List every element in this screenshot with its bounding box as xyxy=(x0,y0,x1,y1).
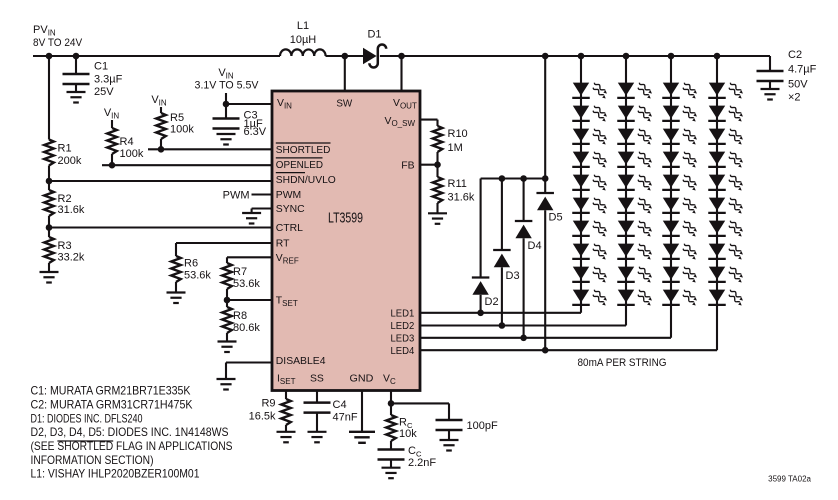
svg-text:LED3: LED3 xyxy=(391,334,415,345)
capacitor C1 xyxy=(63,56,123,98)
svg-text:CTRL: CTRL xyxy=(276,223,303,234)
IC pin labels xyxy=(276,98,417,386)
diode D2 xyxy=(472,179,499,313)
capacitor 100pF xyxy=(436,420,498,440)
svg-text:4.7µF: 4.7µF xyxy=(788,64,817,76)
wire SW pin to rail xyxy=(344,56,346,91)
node bus/D4 xyxy=(520,175,527,182)
wire LED1 xyxy=(420,312,581,314)
resistor R2 xyxy=(44,181,85,228)
capacitor C4 on SS xyxy=(304,391,358,432)
resistor RC xyxy=(386,403,417,449)
resistor R10 xyxy=(433,126,468,165)
diode D1 (Schottky) xyxy=(363,28,386,67)
resistor R7 xyxy=(222,263,260,300)
capacitor CC xyxy=(378,445,437,469)
wire SYNC to ground xyxy=(252,209,272,214)
wire PVIN input rail xyxy=(33,55,280,57)
svg-text:47nF: 47nF xyxy=(333,412,358,424)
svg-text:R4: R4 xyxy=(120,136,134,148)
svg-text:100pF: 100pF xyxy=(467,420,498,432)
svg-text:R8: R8 xyxy=(233,310,247,322)
svg-text:D2: D2 xyxy=(485,296,499,308)
ground under 100pF xyxy=(440,440,459,451)
svg-text:LED1: LED1 xyxy=(391,309,415,320)
node R5/SHORTLED junction xyxy=(158,146,165,153)
svg-text:PWM: PWM xyxy=(223,190,250,202)
svg-text:D5: D5 xyxy=(549,212,563,224)
svg-text:8V TO 24V: 8V TO 24V xyxy=(33,37,83,49)
svg-text:D3: D3 xyxy=(506,270,520,282)
wire VO_SW to R10 xyxy=(420,120,438,126)
ground under C1 xyxy=(67,92,86,103)
node C3 junction xyxy=(223,101,230,108)
svg-text:100k: 100k xyxy=(170,124,194,136)
ground under C2 xyxy=(761,89,780,100)
svg-text:10µH: 10µH xyxy=(290,34,317,46)
wire SHORTLED xyxy=(148,148,272,150)
svg-text:DISABLE4: DISABLE4 xyxy=(276,356,326,367)
ground at SYNC xyxy=(242,213,261,224)
svg-text:80mA PER STRING: 80mA PER STRING xyxy=(578,357,667,369)
resistor R4 xyxy=(107,120,144,165)
node R2/R3 CTRL junction xyxy=(46,224,53,231)
svg-text:3.3µF: 3.3µF xyxy=(94,73,123,85)
diode D3 xyxy=(493,179,519,326)
wire VOUT to diode bus xyxy=(544,56,546,193)
svg-text:31.6k: 31.6k xyxy=(58,204,85,216)
svg-text:GND: GND xyxy=(350,374,374,385)
svg-text:D1: D1 xyxy=(367,28,381,40)
resistor R8 xyxy=(222,300,260,341)
svg-text:RT: RT xyxy=(276,239,290,250)
node PVIN label xyxy=(33,24,83,49)
svg-text:R1: R1 xyxy=(58,143,72,155)
wire OPENLED xyxy=(102,164,272,166)
LED string 3 (10 LEDs) xyxy=(662,53,697,338)
svg-text:3.1V TO 5.5V: 3.1V TO 5.5V xyxy=(195,80,260,92)
capacitor C3 xyxy=(213,104,267,138)
svg-text:OPENLED: OPENLED xyxy=(276,160,323,171)
resistor R1 xyxy=(44,56,82,181)
svg-text:SYNC: SYNC xyxy=(276,204,305,215)
ground under C4 xyxy=(308,432,327,443)
wire CTRL xyxy=(49,226,272,228)
node bus/D5 xyxy=(542,175,549,182)
svg-text:R9: R9 xyxy=(261,398,275,410)
ground under CC xyxy=(382,468,401,479)
ground under R9 xyxy=(277,432,296,443)
svg-text:LED4: LED4 xyxy=(391,346,415,357)
node VOUT junction xyxy=(398,53,405,60)
wire TSET xyxy=(227,299,272,301)
resistor R3 xyxy=(44,228,85,272)
ground under R3 xyxy=(40,272,59,283)
node VC junction xyxy=(388,400,395,407)
svg-text:C1: C1 xyxy=(94,61,108,73)
svg-text:53.6k: 53.6k xyxy=(184,270,211,282)
ground under R11 xyxy=(428,213,447,224)
svg-text:SS: SS xyxy=(310,374,324,385)
svg-text:2.2nF: 2.2nF xyxy=(408,457,436,469)
node rail/diode-bus junction xyxy=(542,53,549,60)
wire LED3 xyxy=(420,337,671,339)
wire diode anode bus xyxy=(481,177,546,179)
inductor L1 xyxy=(280,20,326,56)
diode D5 xyxy=(536,193,562,350)
LED string 1 (10 LEDs) xyxy=(572,53,607,313)
svg-text:LED2: LED2 xyxy=(391,321,415,332)
svg-text:R7: R7 xyxy=(233,266,247,278)
resistor R9 on ISET xyxy=(249,391,291,432)
node C1 junction xyxy=(73,53,80,60)
svg-text:INFORMATION SECTION): INFORMATION SECTION) xyxy=(31,453,154,467)
wire VREF xyxy=(227,257,272,263)
node D5/LED4 xyxy=(542,347,549,354)
ground at DISABLE4 xyxy=(217,379,236,390)
ground under R8 xyxy=(218,342,237,353)
wire LED2 xyxy=(420,324,626,326)
svg-text:LT3599: LT3599 xyxy=(328,210,363,226)
svg-text:C2: C2 xyxy=(788,49,802,61)
wire VIN pin xyxy=(226,93,272,104)
text figure number xyxy=(768,475,811,484)
svg-text:FB: FB xyxy=(401,161,414,172)
svg-text:6.3V: 6.3V xyxy=(244,126,267,138)
node R1/R2 SHDN junction xyxy=(46,178,53,185)
svg-text:200k: 200k xyxy=(58,155,82,167)
svg-text:100k: 100k xyxy=(120,148,144,160)
wire GND pin to ground xyxy=(361,391,363,432)
LED string 4 (10 LEDs) xyxy=(708,53,743,351)
node VIN label above R4 xyxy=(104,107,120,121)
svg-text:R11: R11 xyxy=(448,178,467,190)
text component notes xyxy=(31,384,233,481)
svg-text:L1: L1 xyxy=(297,20,309,32)
ground under R6 xyxy=(167,293,186,304)
node R4/OPENLED junction xyxy=(109,162,116,169)
svg-text:×2: ×2 xyxy=(788,92,801,104)
resistor R6 xyxy=(171,256,211,292)
wire VOUT rail xyxy=(380,55,770,57)
resistor R11 xyxy=(433,165,475,213)
svg-text:D4: D4 xyxy=(528,240,542,252)
ground at GND pin xyxy=(349,432,375,443)
svg-text:SHDN/UVLO: SHDN/UVLO xyxy=(276,175,336,186)
wire SHDN/UVLO xyxy=(49,180,272,182)
wire RT xyxy=(176,243,272,256)
node D3/LED2 xyxy=(499,322,506,329)
wire L1 to D1 xyxy=(326,55,364,57)
wire FB xyxy=(420,164,438,166)
node VIN 3.1V TO 5.5V label xyxy=(195,67,260,92)
node PVIN/R1 junction xyxy=(46,53,53,60)
svg-text:L1: VISHAY IHLP2020BZER100M01: L1: VISHAY IHLP2020BZER100M01 xyxy=(31,467,200,481)
svg-text:31.6k: 31.6k xyxy=(448,191,475,203)
svg-text:80.6k: 80.6k xyxy=(233,322,260,334)
svg-text:25V: 25V xyxy=(94,86,114,98)
wire VC pin xyxy=(390,391,392,404)
capacitor C2 xyxy=(757,49,817,104)
resistor R5 xyxy=(156,107,194,149)
node R10/R11 FB junction xyxy=(434,161,441,168)
svg-text:C2: MURATA GRM31CR71H475K: C2: MURATA GRM31CR71H475K xyxy=(31,398,193,412)
LED string 2 (10 LEDs) xyxy=(617,53,652,326)
wire VOUT pin to rail xyxy=(400,56,402,91)
svg-text:SHORTLED: SHORTLED xyxy=(276,145,331,156)
svg-text:16.5k: 16.5k xyxy=(249,411,276,423)
wire LED4 xyxy=(420,349,717,351)
node R7/R8 TSET junction xyxy=(224,297,231,304)
svg-text:R6: R6 xyxy=(184,258,198,270)
svg-text:10k: 10k xyxy=(399,428,417,440)
svg-text:50V: 50V xyxy=(788,79,808,91)
svg-text:D2, D3, D4, D5: DIODES INC. 1N: D2, D3, D4, D5: DIODES INC. 1N4148WS xyxy=(31,425,229,439)
node D2/LED1 xyxy=(477,310,484,317)
svg-text:D1: DIODES INC. DFLS240: D1: DIODES INC. DFLS240 xyxy=(31,411,143,425)
node D4/LED3 xyxy=(520,335,527,342)
svg-text:R10: R10 xyxy=(448,128,468,140)
wire PWM stub xyxy=(223,190,272,202)
svg-text:3599 TA02a: 3599 TA02a xyxy=(768,475,811,484)
ground under C3 xyxy=(217,134,236,145)
svg-text:C1: MURATA GRM21BR71E335K: C1: MURATA GRM21BR71E335K xyxy=(31,384,191,398)
svg-text:PWM: PWM xyxy=(276,190,301,201)
text 80mA PER STRING xyxy=(578,357,667,369)
svg-text:33.2k: 33.2k xyxy=(58,251,85,263)
wire DISABLE4 to ground xyxy=(226,363,272,379)
svg-text:SW: SW xyxy=(336,99,352,110)
node VIN label above R5 xyxy=(151,94,167,108)
diode D4 xyxy=(515,179,542,338)
svg-text:R3: R3 xyxy=(58,240,72,252)
svg-text:C4: C4 xyxy=(333,399,347,411)
op-amp/IC U1 LT3599 body xyxy=(272,91,420,391)
wire VC to 100pF xyxy=(391,403,449,420)
node bus/D3 xyxy=(499,175,506,182)
svg-text:R5: R5 xyxy=(170,112,184,124)
svg-text:1M: 1M xyxy=(448,142,463,154)
svg-text:53.6k: 53.6k xyxy=(233,278,260,290)
node SW junction xyxy=(342,53,349,60)
